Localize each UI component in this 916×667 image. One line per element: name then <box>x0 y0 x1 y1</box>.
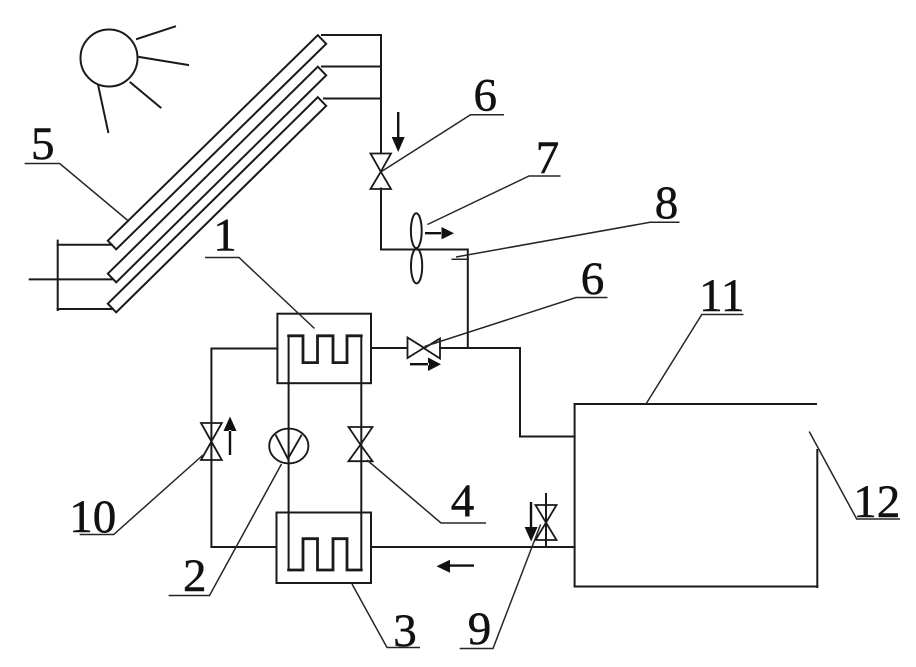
collector tube A <box>108 35 326 249</box>
svg-text:5: 5 <box>31 118 55 170</box>
heat exchanger 1 coil <box>289 336 362 363</box>
pump 2 <box>269 429 308 464</box>
tank 11 left edge <box>574 404 576 587</box>
fan 7 upper blade <box>411 213 422 248</box>
wire: riser from collector to valve 6a <box>380 35 382 153</box>
wire: exchanger3 right to tank <box>371 546 575 548</box>
sun ray right <box>140 57 189 65</box>
wire: exchanger1 left to left riser <box>211 349 277 548</box>
svg-text:3: 3 <box>393 605 417 657</box>
arrow right under valve 6b <box>410 358 441 372</box>
valve 9 <box>536 505 557 540</box>
collector tube C <box>108 97 326 312</box>
arrow up at valve 10 <box>224 417 237 456</box>
svg-text:4: 4 <box>451 475 475 527</box>
tank 11 right edge <box>816 450 818 587</box>
leader 5 <box>25 164 129 222</box>
sun ray down <box>98 86 108 132</box>
svg-text:1: 1 <box>213 210 237 262</box>
svg-text:7: 7 <box>536 132 560 184</box>
leader 1 <box>205 258 315 329</box>
leader 9 <box>460 525 541 649</box>
leader 12 <box>809 432 900 520</box>
arrow down at valve 9 <box>525 502 538 542</box>
sun ray lower-right <box>131 83 161 108</box>
arrow right at fan 7 <box>425 227 454 239</box>
valve 6a <box>371 154 392 190</box>
arrow left on return pipe <box>437 560 475 573</box>
leader 6b <box>425 298 608 347</box>
svg-text:11: 11 <box>699 270 744 322</box>
svg-text:6: 6 <box>474 70 498 122</box>
collector left connector top <box>58 244 112 246</box>
heat exchanger 3 body <box>277 513 372 584</box>
leader 3 <box>352 584 420 648</box>
sun ray upper-right <box>137 27 175 40</box>
leader 4 <box>367 460 486 523</box>
collector tube B <box>108 67 326 283</box>
collector left connector bottom <box>58 308 113 310</box>
wire: valve 6a to elbow <box>381 189 468 349</box>
leader 11 <box>646 315 743 404</box>
valve 9 stem <box>545 494 547 547</box>
leader 6a <box>382 115 505 172</box>
collector top connector 1 <box>322 34 381 36</box>
svg-text:12: 12 <box>853 476 900 528</box>
valve 10 <box>201 423 222 460</box>
wire: exchanger1 right to valve 6b <box>371 347 407 349</box>
tank 11 top edge <box>575 403 816 405</box>
leader 10 <box>80 455 203 535</box>
sun <box>81 30 138 87</box>
heat exchanger 1 body <box>277 314 371 384</box>
tank 11 bottom edge <box>575 586 818 588</box>
svg-text:9: 9 <box>468 603 492 655</box>
svg-text:2: 2 <box>183 550 207 602</box>
leader 2 <box>169 464 282 596</box>
svg-text:8: 8 <box>655 177 679 229</box>
svg-text:6: 6 <box>581 253 605 305</box>
collector top connector 2 <box>322 66 381 68</box>
collector inlet pipe middle <box>30 278 112 280</box>
valve 4 <box>349 427 373 461</box>
arrow down at valve 6a <box>392 112 405 152</box>
svg-text:10: 10 <box>69 491 116 543</box>
heat exchanger 3 coil <box>289 539 362 570</box>
wire: vertical pipe through valve 4 <box>360 336 362 570</box>
leader 8 <box>456 222 680 257</box>
leader 7 <box>428 176 561 225</box>
valve 6b <box>408 338 441 359</box>
wire: valve 6b to tank elbow <box>440 348 575 437</box>
fan 7 lower blade <box>411 249 422 284</box>
collector top connector 3 <box>324 98 381 100</box>
wire: vertical pipe through pump 2 <box>288 336 290 570</box>
leader 8 tick <box>452 258 470 260</box>
collector left header vertical <box>57 241 59 310</box>
pump 2 vanes <box>276 436 301 459</box>
